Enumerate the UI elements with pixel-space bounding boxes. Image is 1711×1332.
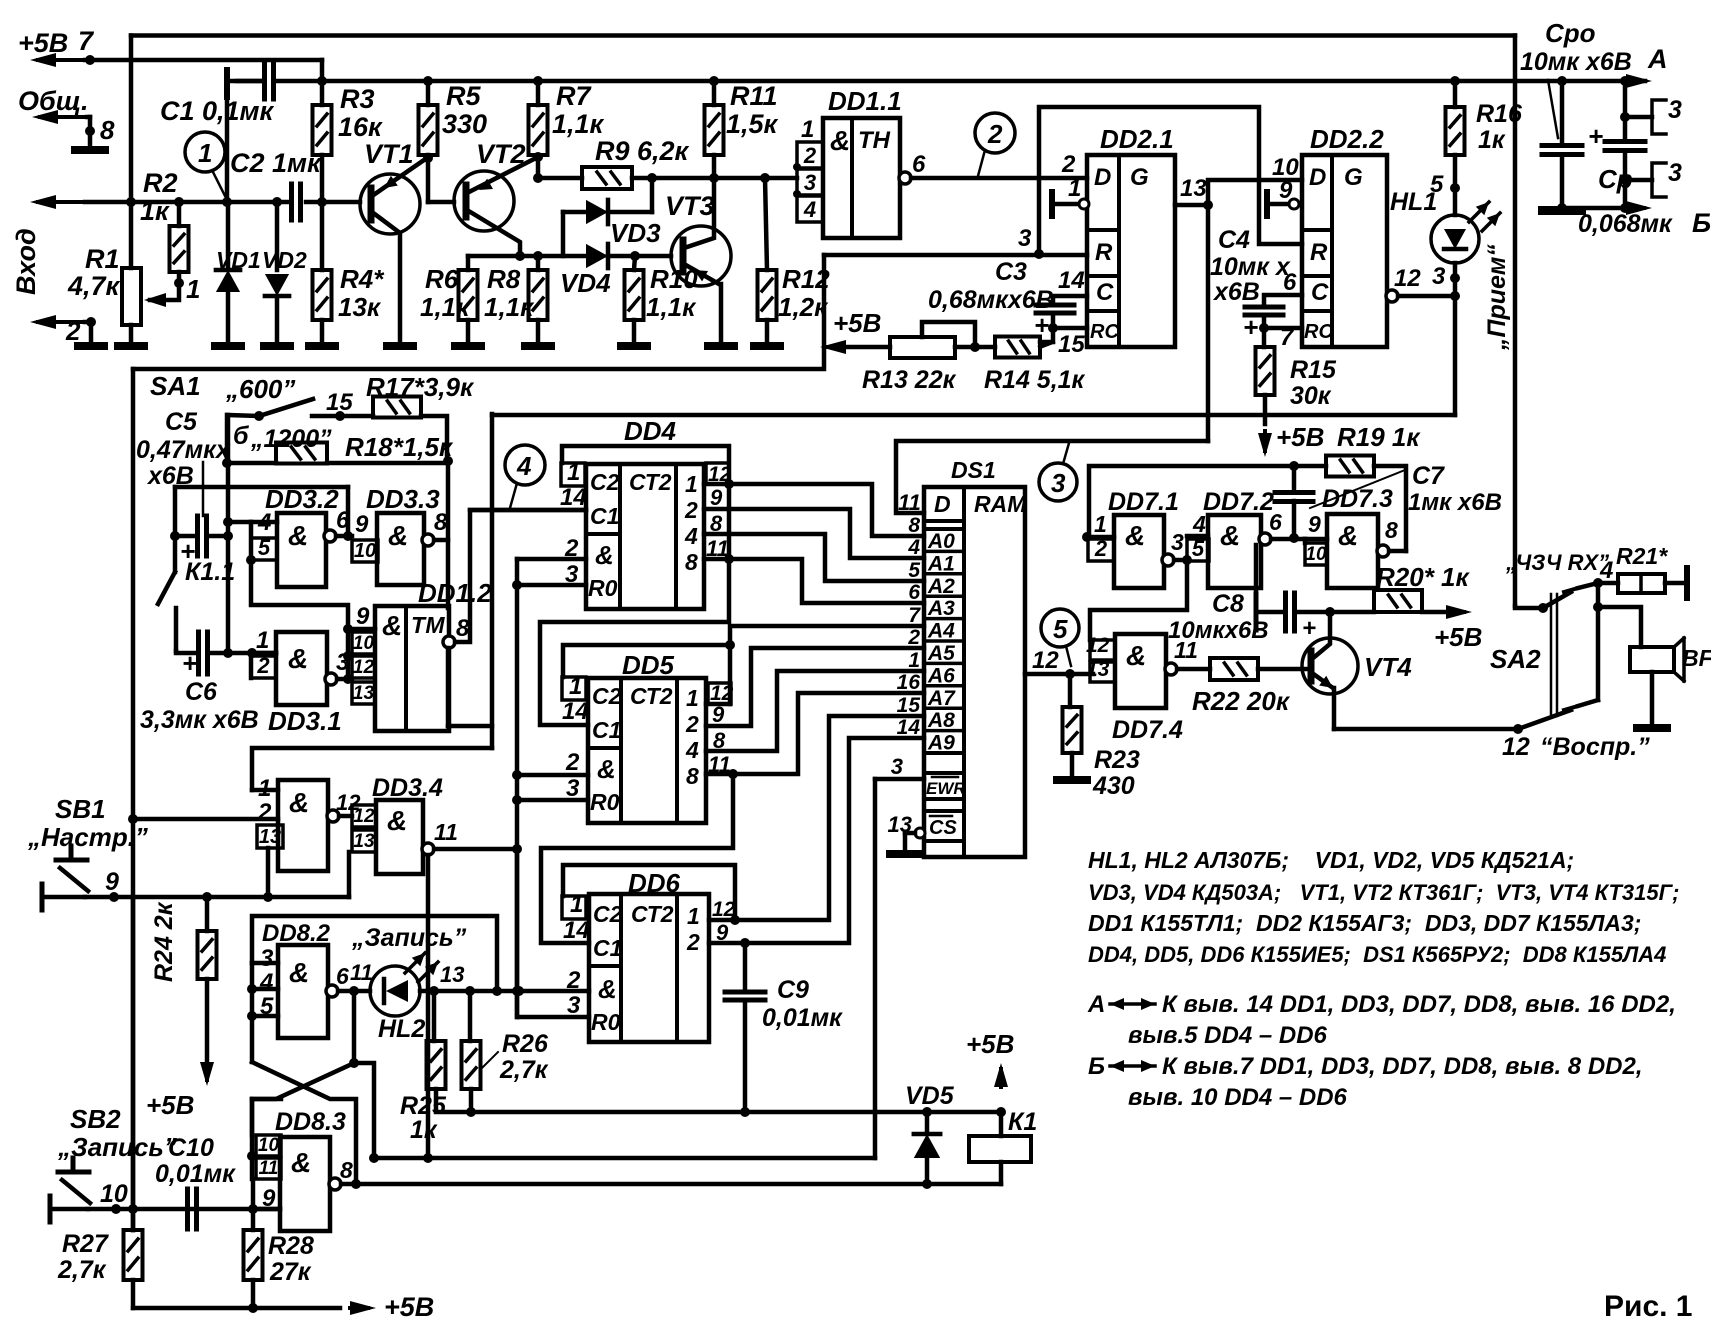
resistor R26 2,7к (468, 991, 473, 1041)
svg-text:А1: А1 (927, 552, 955, 575)
wire R14 right (1040, 342, 1053, 347)
svg-text:R: R (1095, 239, 1113, 266)
svg-text:10: 10 (353, 633, 375, 654)
svg-text:R0: R0 (590, 789, 620, 815)
svg-text:9: 9 (710, 485, 723, 510)
svg-text:DD4, DD5, DD6 К155ИЕ5; DS1 К5: DD4, DD5, DD6 К155ИЕ5; DS1 К565РУ2; DD8 … (1088, 942, 1666, 967)
svg-text:C: C (1311, 279, 1329, 306)
wire mid frame left (131, 369, 136, 1230)
wire DD3.4 pin13 riser (347, 852, 352, 897)
wire VT1 emitter (372, 160, 424, 196)
IC DD8.3 box (280, 1137, 330, 1231)
svg-text:2: 2 (686, 929, 700, 955)
svg-text:14: 14 (560, 484, 587, 511)
pin 2 box DD1.1 (797, 142, 823, 168)
svg-text:выв.5 DD4 – DD6: выв.5 DD4 – DD6 (1128, 1022, 1328, 1049)
IC DD3.4 box (376, 800, 423, 874)
wire rail y81 (237, 79, 263, 84)
svg-text:10: 10 (258, 1135, 280, 1156)
svg-text:0,01мк: 0,01мк (762, 1004, 843, 1032)
junction R18 x228 (222, 458, 232, 468)
circle node 1 (185, 132, 225, 172)
svg-text:0,47мкх: 0,47мкх (136, 436, 231, 464)
ground VT3 (708, 342, 734, 350)
wire DD7 loop top (1089, 466, 1326, 537)
svg-text:С10: С10 (168, 1134, 214, 1162)
svg-text:R1: R1 (85, 244, 120, 274)
svg-text:+: + (1302, 615, 1316, 642)
junction input x131 (126, 197, 136, 207)
svg-text:1,1к: 1,1к (646, 292, 697, 322)
wire reset x517 lower (515, 849, 520, 1017)
svg-text:8: 8 (434, 509, 448, 536)
svg-text:R: R (1310, 239, 1328, 266)
svg-text:1: 1 (1094, 511, 1107, 537)
svg-text:С4: С4 (1218, 226, 1250, 254)
terminal 2 arrow (38, 320, 85, 324)
wire RX from top (1515, 606, 1543, 608)
wire C5 feedback (175, 485, 348, 490)
junction y178 x765 (760, 173, 770, 183)
pin 2 box DD3.1 (251, 656, 276, 678)
svg-text:R24 2к: R24 2к (150, 901, 178, 982)
junction VT4 collector (1325, 607, 1335, 617)
svg-text:11: 11 (434, 819, 458, 845)
circle node 2 (975, 113, 1015, 153)
svg-text:х6В: х6В (1212, 278, 1260, 306)
svg-text:+: + (1588, 121, 1603, 151)
svg-text:DD3.3: DD3.3 (366, 484, 440, 514)
svg-text:DD1 К155ТЛ1; DD2 К155АГ3; DD: DD1 К155ТЛ1; DD2 К155АГ3; DD3, DD7 К155Л… (1088, 910, 1641, 936)
svg-text:12: 12 (1394, 265, 1421, 292)
IC DD7.3 box (1327, 514, 1378, 588)
svg-text:10мк х: 10мк х (1210, 253, 1291, 281)
ground R10 (621, 342, 647, 350)
svg-text:Б: Б (1088, 1053, 1105, 1080)
IC DD7.2 box (1208, 515, 1261, 588)
pin 13 box DD1.2 (352, 682, 375, 704)
junction R21 left (1593, 578, 1603, 588)
svg-text:VD4: VD4 (560, 268, 611, 298)
svg-text:8: 8 (100, 115, 115, 145)
svg-text:DD3.2: DD3.2 (265, 484, 339, 514)
svg-text:+5В: +5В (384, 1292, 434, 1322)
svg-text:16к: 16к (338, 112, 383, 142)
wire R15 +5V (1263, 395, 1268, 424)
svg-text:R15: R15 (1290, 356, 1337, 384)
svg-text:R9 6,2к: R9 6,2к (595, 136, 690, 166)
wire DD4 cascade (540, 484, 729, 725)
svg-text:4,7к: 4,7к (67, 271, 121, 301)
wire DD5 loop (563, 645, 730, 677)
svg-text:VD5: VD5 (905, 1082, 955, 1110)
svg-text:14: 14 (1058, 267, 1085, 294)
svg-text:SB1: SB1 (55, 794, 106, 824)
speaker BF1 (1630, 647, 1674, 672)
junction R23 (1065, 669, 1075, 679)
svg-text:0,01мк: 0,01мк (155, 1160, 236, 1188)
svg-text:HL2: HL2 (378, 1015, 425, 1043)
wire VT3 collector (684, 178, 714, 248)
svg-text:б: б (233, 422, 250, 450)
svg-text:К выв. 14 DD1, DD3, DD7, DD8,: К выв. 14 DD1, DD3, DD7, DD8, выв. 16 DD… (1162, 991, 1676, 1018)
junction R25R26 (466, 1107, 476, 1117)
svg-text:А4: А4 (927, 620, 955, 643)
wire +5V corner to y81 (320, 60, 325, 81)
IC DD1.1 box (823, 118, 900, 238)
IC DD5 box (588, 678, 706, 823)
wire top right corner (1513, 36, 1518, 607)
svg-text:10мк х6В: 10мк х6В (1520, 48, 1632, 76)
ground term2 (78, 342, 104, 350)
junction input x322 (317, 197, 327, 207)
junction feedback (343, 531, 353, 541)
wire VT4 collector (1312, 612, 1330, 659)
svg-text:R28: R28 (268, 1232, 314, 1260)
junction term2 (86, 317, 96, 327)
wire +5V bottom (133, 1306, 340, 1311)
svg-text:А6: А6 (927, 664, 955, 687)
svg-text:7: 7 (908, 604, 921, 627)
svg-text:1к: 1к (140, 196, 170, 226)
svg-text:„Запись”: „Запись” (351, 924, 467, 952)
svg-text:7: 7 (78, 26, 95, 56)
pin 5 box DD7.2 (1187, 539, 1209, 561)
svg-text:Б: Б (1692, 208, 1711, 238)
junction DD2.1 R (1034, 249, 1044, 259)
wire HL1 bottom (1453, 263, 1458, 296)
svg-text:9: 9 (105, 868, 119, 896)
svg-text:2: 2 (987, 119, 1003, 149)
circle node 5 (1041, 609, 1079, 647)
svg-text:1: 1 (686, 685, 699, 711)
wire VT1 collector (372, 212, 400, 342)
svg-text:C: C (1096, 279, 1114, 306)
svg-text:+5В: +5В (1434, 622, 1482, 652)
resistor R23 430 (1068, 674, 1073, 707)
svg-text:5: 5 (1192, 536, 1205, 561)
svg-text:+5В: +5В (146, 1090, 194, 1120)
svg-text:VD3, VD4 КД503А; VT1, VT2 КТ: VD3, VD4 КД503А; VT1, VT2 КТ361Г; VT3, V… (1088, 880, 1679, 905)
svg-text:VD2: VD2 (262, 247, 307, 273)
svg-text:R2: R2 (143, 168, 178, 198)
wire DD1.2 pintie (346, 629, 351, 679)
svg-text:6: 6 (1283, 269, 1297, 296)
svg-text:1мк х6В: 1мк х6В (1408, 489, 1502, 516)
wire pin boxes to box (280, 1145, 283, 1148)
svg-text:1: 1 (687, 903, 700, 929)
ground CS (890, 850, 920, 858)
svg-text:RC: RC (1304, 321, 1333, 343)
svg-text:430: 430 (1092, 772, 1135, 800)
svg-text:+5В: +5В (1276, 422, 1324, 452)
junction C6 x228 (223, 648, 233, 658)
svg-text:R21*: R21* (1616, 543, 1668, 569)
wire BF1 gnd (1650, 672, 1655, 724)
junction DD8.3 out (351, 1179, 361, 1189)
pin 5 box DD3.2 (251, 538, 277, 560)
svg-text:330: 330 (442, 109, 487, 139)
svg-text:2: 2 (1094, 536, 1108, 561)
svg-text:9: 9 (356, 603, 370, 630)
wire DD4 out12 (704, 482, 729, 487)
svg-text:9: 9 (1308, 511, 1321, 537)
svg-text:1к: 1к (1478, 126, 1506, 154)
pin 8 out DD8.3 (329, 1178, 341, 1190)
junction C5 right (223, 531, 233, 541)
svg-text:15: 15 (1058, 331, 1085, 358)
svg-text:+: + (1243, 312, 1258, 342)
svg-text:VT1: VT1 (364, 139, 414, 169)
svg-text:DD5: DD5 (622, 650, 675, 680)
junction R10 top (630, 251, 640, 261)
wire C1 left down (225, 97, 230, 202)
IC DD6 box (589, 894, 709, 1042)
pin 10 box DD1.2 (352, 632, 375, 654)
svg-text:13: 13 (259, 826, 281, 848)
svg-text:ТН: ТН (858, 127, 891, 154)
svg-text:2: 2 (257, 799, 272, 826)
svg-text:3: 3 (1668, 96, 1682, 124)
svg-text:С6: С6 (185, 678, 218, 706)
wire top rail y35 (131, 33, 1515, 38)
svg-text:7: 7 (1280, 324, 1295, 351)
pin 6 out DD7.2 (1259, 533, 1271, 545)
wire K1 line y1184 (356, 1182, 1001, 1187)
svg-text:RC: RC (1090, 321, 1119, 343)
pin 13 box DD8.1 (257, 825, 283, 848)
wire x228 column (226, 415, 231, 653)
svg-text:1: 1 (801, 116, 814, 143)
contact 3 lower (1620, 175, 1630, 185)
wire SB1 y897 (85, 895, 349, 900)
svg-text:С2: С2 (592, 683, 622, 709)
svg-text:СТ2: СТ2 (629, 469, 672, 495)
pin 10 box DD8.3 (256, 1135, 281, 1156)
pin 12 box DD1.2 (352, 656, 375, 678)
wire osc to DD8.1 (252, 748, 492, 790)
svg-text:А0: А0 (927, 530, 955, 553)
svg-text:С1: С1 (590, 503, 619, 529)
svg-text:&: & (1338, 520, 1358, 551)
junction input x227 (222, 197, 232, 207)
pin 11 out DD7.4 (1165, 663, 1177, 675)
svg-text:СТ2: СТ2 (630, 683, 673, 709)
wire DD2.1 top rect (1039, 107, 1302, 254)
wire left vertical x131 (129, 36, 134, 269)
wire DD3.2 pin45 feed (228, 520, 251, 525)
arrow +5V K1 (999, 1069, 1003, 1087)
svg-text:SA2: SA2 (1490, 644, 1541, 674)
svg-text:2: 2 (1061, 151, 1076, 178)
svg-text:14: 14 (897, 716, 921, 739)
svg-text:VD3: VD3 (610, 218, 661, 248)
svg-text:R19 1к: R19 1к (1337, 422, 1421, 452)
svg-text:2,7к: 2,7к (57, 1256, 107, 1284)
svg-text:DD1.1: DD1.1 (828, 86, 902, 116)
svg-text:11: 11 (259, 1158, 279, 1179)
svg-text:&: & (288, 520, 308, 551)
capacitor C6 3,3мк (176, 651, 197, 653)
svg-text:4: 4 (685, 737, 699, 763)
svg-text:R14 5,1к: R14 5,1к (984, 366, 1086, 394)
pin 12 box DD3.4 (352, 805, 376, 827)
junction y178 x714 (709, 173, 719, 183)
wire Б y208 (1562, 206, 1628, 211)
ground R23 (1057, 776, 1087, 784)
junction VD4 x520 (515, 251, 525, 261)
wire R1 wiper (150, 283, 179, 300)
pin 10 box DD3.3 (352, 540, 378, 562)
wire HL1 to osc (1453, 296, 1458, 415)
circle node 3 (1039, 463, 1077, 501)
wire DD1.1 out (911, 176, 1087, 181)
wire DD4 loop (562, 446, 729, 484)
svg-text:„600”: „600” (225, 374, 295, 404)
junction X right (349, 1058, 359, 1068)
wire osc to x492 (448, 724, 492, 729)
svg-text:3: 3 (1018, 225, 1032, 252)
svg-text:DD7.3: DD7.3 (1322, 485, 1393, 513)
junction R9 right (647, 173, 657, 183)
svg-text:К выв.7 DD1, DD3, DD7, DD8, в: К выв.7 DD1, DD3, DD7, DD8, выв. 8 DD2, (1162, 1053, 1643, 1080)
wire Воспр (1334, 727, 1518, 732)
wire SB2 y1209 (88, 1207, 280, 1212)
junction C7 top (1289, 461, 1299, 471)
IC DD1.2 box (375, 606, 449, 731)
svg-text:27к: 27к (269, 1258, 312, 1286)
pin 6 out DD8.2 (326, 985, 338, 997)
ground Общ (75, 146, 105, 154)
pin 9 wire DD8.3 (253, 1207, 280, 1212)
svg-text:13к: 13к (338, 292, 382, 322)
ground VD2 (264, 342, 290, 350)
svg-text:R27: R27 (62, 1230, 109, 1258)
wire VT4 emitter (1312, 673, 1333, 688)
svg-text:5: 5 (1053, 614, 1068, 644)
wire DD6 loop (563, 865, 735, 920)
svg-text:А5: А5 (927, 642, 955, 665)
ground BF1 (1637, 724, 1667, 732)
svg-text:G: G (1344, 164, 1363, 191)
junction DD7.1 out (1182, 555, 1192, 565)
svg-text:А7: А7 (927, 687, 956, 710)
svg-text:HL1, HL2 АЛ307Б; VD1, VD2,: HL1, HL2 АЛ307Б; VD1, VD2, VD5 КД521А; (1088, 847, 1574, 873)
svg-text:DD3.1: DD3.1 (268, 706, 342, 736)
IC DD7.4 box (1115, 634, 1166, 708)
wire pin5 tie (249, 522, 254, 560)
svg-text:&: & (291, 1147, 311, 1178)
wire terminal2 (85, 320, 91, 325)
pin 11 box DD8.3 (256, 1158, 281, 1179)
svg-text:1,5к: 1,5к (726, 109, 779, 139)
svg-text:12: 12 (353, 806, 375, 827)
ground R12 (754, 342, 780, 350)
wire DD3.2 to DD1.2 pin9 (251, 560, 348, 629)
ground VD1 (215, 342, 241, 350)
svg-text:R11: R11 (730, 81, 778, 111)
wire Запись rect (252, 916, 497, 991)
wire latch left vert (250, 963, 255, 1062)
svg-text:RAM: RAM (974, 491, 1027, 517)
switch SA2 upper (1543, 592, 1571, 608)
wire X to EWR line (354, 1063, 374, 1158)
svg-text:3,3мк х6В: 3,3мк х6В (140, 706, 259, 734)
svg-text:С1 0,1мк: С1 0,1мк (160, 96, 275, 126)
svg-text:3: 3 (1668, 159, 1682, 187)
svg-text:10: 10 (100, 1180, 128, 1208)
svg-text:HL1: HL1 (1390, 188, 1437, 216)
contact 3 upper (1620, 112, 1630, 122)
wire R18 to DD1.2 (446, 461, 451, 608)
svg-text:R3: R3 (340, 84, 375, 114)
svg-text:1: 1 (256, 627, 269, 654)
IC DD8.3 crown (252, 1097, 281, 1102)
IC DD3.2 box (277, 513, 326, 587)
pin 3 out DD7.1 (1162, 554, 1174, 566)
ground x131 (118, 342, 144, 350)
wire mid frame top (133, 255, 824, 369)
wire DD1.2 out jog (455, 510, 586, 642)
wire +5V y60 (85, 58, 322, 63)
switch SA2 link (1550, 594, 1553, 716)
wire R16-HL1 (1453, 155, 1458, 215)
svg-text:1: 1 (198, 138, 212, 168)
svg-text:&: & (595, 540, 614, 570)
svg-text:3: 3 (1171, 529, 1184, 555)
svg-text:А3: А3 (927, 597, 955, 620)
svg-text:5: 5 (258, 535, 271, 560)
svg-text:12: 12 (353, 657, 375, 678)
svg-text:1: 1 (1068, 175, 1081, 202)
cell D DS1 (924, 487, 964, 521)
node +5V terminal 7 arrow (38, 58, 85, 62)
wire R13-R14 (955, 345, 995, 350)
svg-text:D: D (1094, 164, 1111, 191)
arrow A right (1626, 74, 1652, 88)
IC DD8.2 box (278, 945, 328, 1038)
wire VT2 collector (467, 210, 520, 256)
capacitor C8 10мк (1254, 545, 1259, 594)
wire DD7.1 to DD7.4 (1090, 560, 1187, 640)
svg-text:С2: С2 (593, 901, 623, 927)
svg-text:0,068мк: 0,068мк (1578, 210, 1673, 238)
svg-text:2: 2 (684, 497, 698, 523)
svg-text:BF1: BF1 (1682, 645, 1711, 671)
svg-text:R5: R5 (446, 81, 481, 111)
svg-text:CS: CS (929, 817, 957, 839)
svg-text:8: 8 (685, 549, 698, 575)
svg-text:3: 3 (1051, 468, 1066, 498)
svg-text:13: 13 (1180, 175, 1207, 202)
svg-text:2,7к: 2,7к (499, 1056, 549, 1084)
junction C7 bottom (1289, 533, 1299, 543)
svg-text:&: & (1126, 640, 1146, 671)
svg-text:11: 11 (350, 960, 373, 985)
junction Общ 8 (85, 126, 95, 136)
svg-text:13: 13 (353, 831, 375, 852)
svg-text:С2 1мк: С2 1мк (230, 148, 322, 178)
svg-text:1: 1 (186, 274, 200, 304)
svg-text:С7: С7 (1412, 462, 1445, 490)
svg-text:&: & (289, 787, 309, 818)
svg-text:1: 1 (685, 471, 698, 497)
pin 10 box DD7.3 (1305, 543, 1327, 565)
svg-text:С5: С5 (165, 408, 198, 436)
svg-text:8: 8 (686, 763, 699, 789)
svg-text:С8: С8 (1212, 590, 1244, 618)
svg-text:А: А (1087, 991, 1105, 1018)
